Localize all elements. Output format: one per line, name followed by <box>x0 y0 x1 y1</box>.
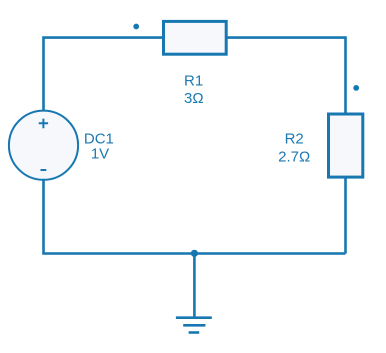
junction node dot on bottom rail <box>191 250 198 257</box>
svg-text:2.7Ω: 2.7Ω <box>278 148 310 165</box>
wire: right branch from R2 bottom pin to bottom rail <box>344 177 347 254</box>
voltage source DC1 circle body <box>9 111 78 180</box>
wire: left branch down from DC1 and bottom rail to right branch <box>44 180 346 254</box>
ground symbol <box>176 318 212 333</box>
wire: ground stem from bottom rail junction <box>193 254 196 318</box>
resistor R2 body <box>329 114 363 177</box>
voltage source DC1 plus sign <box>39 119 48 129</box>
svg-text:3Ω: 3Ω <box>184 90 204 107</box>
svg-text:R2: R2 <box>285 130 304 147</box>
svg-text:R1: R1 <box>184 72 203 89</box>
wire: top rail from R1 right pin and right branch down to R2 top pin <box>226 38 346 114</box>
node B: floating node dot right of right branch above R2 <box>353 85 359 91</box>
wire: left branch up from DC1 and top rail to R1 left pin <box>44 38 164 111</box>
svg-text:1V: 1V <box>91 145 109 162</box>
resistor R1 body <box>164 21 227 54</box>
voltage source DC1 minus sign <box>41 169 47 171</box>
node A: floating node dot above top rail left of R1 <box>133 24 139 30</box>
